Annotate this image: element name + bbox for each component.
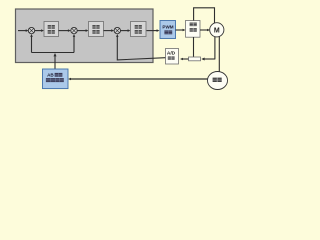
- wire: motor shaft down to encoder disk: [218, 37, 220, 73]
- wire: PWM generator to power driver: [176, 29, 186, 32]
- block: speed regulator 速度调节: [89, 22, 104, 37]
- wire: sense resistor to A/D interface (arrow): [180, 58, 189, 61]
- wire: position regulator to summing junction 2: [59, 29, 71, 32]
- wire: top loop from power driver over to motor: [194, 8, 215, 24]
- wire: power driver to motor: [200, 29, 210, 32]
- block: power driver 功率驱动: [186, 21, 201, 38]
- svg-text:PWM: PWM: [162, 25, 173, 30]
- wire: current regulator to PWM generator: [147, 29, 160, 32]
- wire: position command input to summing junction 1: [18, 29, 29, 32]
- sense resistor: [189, 57, 201, 61]
- block: current regulator 电流调节: [131, 22, 147, 37]
- block: AB encoder signal interface AB编码信号接口: [43, 69, 69, 89]
- summing junction 1: [28, 27, 34, 33]
- controller DSP grey block: [16, 9, 154, 63]
- block: A/D interface A/D接口: [166, 49, 179, 65]
- wire: bus up into summing junction 1: [30, 34, 33, 53]
- wire: power driver down to sense resistor: [193, 37, 195, 57]
- svg-text:M: M: [214, 28, 220, 35]
- wire: summing junction 1 to position regulator: [35, 29, 44, 32]
- summing junction 3: [114, 27, 120, 33]
- block: PWM generator PWM发生: [160, 21, 176, 39]
- block: position regulator 位置调节: [44, 22, 59, 37]
- wire: bus up into summing junction 2: [73, 34, 76, 53]
- wire: AB encoder interface up to feedback bus: [54, 53, 57, 69]
- wire: position/speed feedback bus: [32, 52, 75, 54]
- wire: encoder disk to AB interface (feedback, arrow): [68, 78, 207, 81]
- wire: summing junction 2 to speed regulator: [77, 29, 88, 32]
- encoder disk 码盘: [208, 72, 228, 90]
- motor M: [210, 23, 224, 37]
- wire: motor lead to sense resistor (arrow): [201, 58, 215, 61]
- wire: speed regulator to summing junction 3: [104, 29, 115, 32]
- svg-text:AB: AB: [47, 73, 54, 78]
- wire: A/D interface feedback to summing junction 3: [116, 34, 165, 60]
- summing junction 2: [71, 27, 77, 33]
- svg-text:A/D: A/D: [167, 51, 176, 57]
- wire: summing junction 3 to current regulator: [121, 29, 131, 32]
- wire: motor left lead down to current sense line: [214, 37, 216, 60]
